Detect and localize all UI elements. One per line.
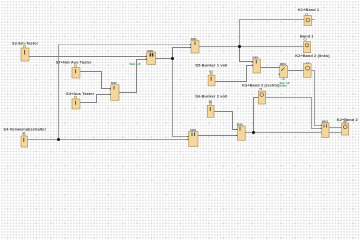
wire: bottom bus J to H2 xyxy=(245,132,322,134)
relay K002 (K) xyxy=(187,128,198,146)
switch S7 Not-Aus-Taster xyxy=(72,65,80,78)
contact S004 (B) xyxy=(252,56,261,73)
svg-text:K003: K003 xyxy=(237,123,244,127)
svg-text:S002: S002 xyxy=(111,81,117,85)
contact M001 (F) xyxy=(279,62,288,80)
svg-text:M001: M001 xyxy=(280,62,287,66)
node dot3 xyxy=(252,131,255,134)
svg-text:K3+Band 2 (rechts): K3+Band 2 (rechts) xyxy=(242,82,280,87)
wire: K right to J lower pin xyxy=(198,135,237,137)
switch S3 Aus-Taster xyxy=(72,96,80,109)
wire: N right up to P lower pin xyxy=(119,60,147,93)
wire: dot2 down to B upper pin xyxy=(240,47,254,62)
svg-text:K2+Band 2 (links): K2+Band 2 (links) xyxy=(295,53,330,58)
indicator Band 1 box xyxy=(303,38,310,53)
wire: bottom bus right of H2 xyxy=(329,132,342,134)
wire: S3 right up to N lower pin xyxy=(80,95,111,103)
wire: H2 right to H3 xyxy=(329,127,342,129)
svg-text:S2-Ein-Taster: S2-Ein-Taster xyxy=(12,41,38,46)
relay K003 (J) xyxy=(236,123,245,141)
sensor switch B2 bunker2 (C2) xyxy=(207,99,214,117)
svg-text:S6-Bunker 2 voll: S6-Bunker 2 voll xyxy=(195,94,227,99)
wire: B right to F xyxy=(261,67,280,69)
lamp coil K2 Band2 (H3) xyxy=(342,120,349,135)
wire: dot2 up to K1 Band1 coil xyxy=(240,20,305,47)
svg-text:K002: K002 xyxy=(190,128,197,132)
wire: A right to dot2 xyxy=(199,46,240,48)
svg-text:Tank = off: Tank = off xyxy=(129,62,140,66)
wire: E left down to dot3 xyxy=(254,98,259,133)
wire: G right down to H2 pin1 xyxy=(311,71,322,126)
contact S005 (A) xyxy=(190,37,199,53)
wire: dot1 up and right to A lower pin xyxy=(173,48,192,59)
svg-text:B2: B2 xyxy=(209,99,213,103)
switch S4 Vorwahlschalter xyxy=(21,131,28,147)
svg-text:Band 1: Band 1 xyxy=(300,34,314,39)
svg-text:S005: S005 xyxy=(191,37,197,41)
svg-text:S4-Vorwarnabschalter: S4-Vorwarnabschalter xyxy=(3,126,46,131)
svg-text:K2+Band 2: K2+Band 2 xyxy=(337,117,359,122)
svg-text:S3+Aus Taster: S3+Aus Taster xyxy=(66,91,95,96)
relay contact K001 (P) xyxy=(146,49,156,65)
svg-text:B1: B1 xyxy=(210,70,214,74)
node dot4 xyxy=(57,138,60,141)
wire: C right up to B lower pin xyxy=(215,66,253,82)
wire: V2 dot1 down to K upper pin xyxy=(173,59,189,137)
wire: S2 output to P xyxy=(29,56,147,58)
svg-text:B klebt: B klebt xyxy=(280,84,287,87)
coil K3 Band2 rechts (E) xyxy=(258,87,265,104)
svg-text:S004: S004 xyxy=(252,56,258,60)
wire: M right down to N upper pin xyxy=(80,72,111,89)
wire: E right down to H2 pin2 xyxy=(266,98,322,129)
svg-text:K001: K001 xyxy=(147,49,154,53)
wire: V1 left vertical xyxy=(58,45,60,140)
contact M001 (H2) xyxy=(321,120,329,138)
wire: L1 top rung horizontal from V1 to A xyxy=(59,44,192,46)
svg-text:Y3: Y3 xyxy=(259,87,263,91)
wire: F right to G xyxy=(288,70,304,72)
node dot1 xyxy=(171,57,174,60)
wire: C2 right down to J upper pin xyxy=(214,112,237,130)
wire: dot2 right to Band1 contact box xyxy=(240,46,304,48)
wire: P right to node dot1 xyxy=(156,58,173,60)
node dot2 xyxy=(238,45,241,48)
coil K1 Band 1 with circle xyxy=(304,12,312,25)
svg-text:K1+Band 1: K1+Band 1 xyxy=(298,7,320,12)
svg-text:S7+Not Aus Taster: S7+Not Aus Taster xyxy=(56,60,92,65)
lamp C1 (G) xyxy=(304,61,312,77)
contact S002 (N) xyxy=(110,81,119,100)
svg-text:M001: M001 xyxy=(322,120,329,124)
switch S2 Ein-Taster xyxy=(21,45,29,61)
wire: stub right of Band1 coil xyxy=(312,19,315,21)
wire: bottom bus B2 from Q to K xyxy=(28,139,189,141)
sensor switch B1 bunker1 (C) xyxy=(208,70,215,86)
svg-text:S5-Bunker 1 voll: S5-Bunker 1 voll xyxy=(195,62,227,67)
